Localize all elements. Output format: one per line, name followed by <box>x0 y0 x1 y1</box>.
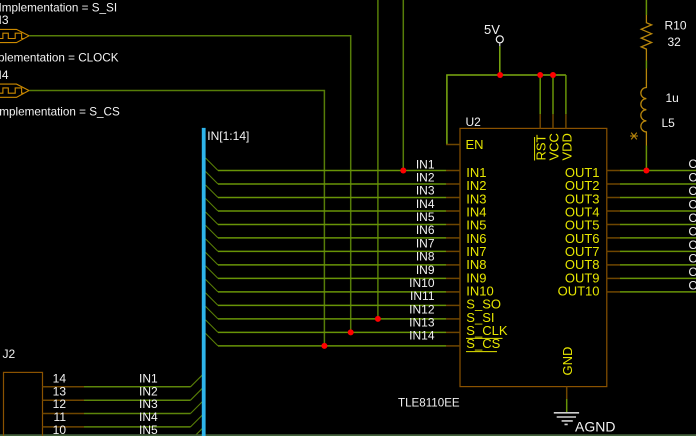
L5 polarity asterisk <box>630 133 638 140</box>
wire IN4 from bus to U2 <box>218 210 446 212</box>
wire from L5 down to OUT1 <box>645 146 647 171</box>
wire J2 pin 13 to bus (IN2) <box>84 399 191 401</box>
wire OUT7 to right edge <box>620 250 696 252</box>
pin IN3 <box>446 197 460 199</box>
svg-text:IN6: IN6 <box>416 223 435 237</box>
svg-text:R10: R10 <box>665 19 687 33</box>
wire to VDD pin <box>565 75 567 114</box>
wire to VCC pin <box>552 75 554 114</box>
svg-text:U2: U2 <box>466 115 482 129</box>
power symbol 5V <box>496 36 503 43</box>
J2 pin 14 <box>43 386 85 388</box>
svg-text:32: 32 <box>668 35 682 49</box>
wire from port I3 down to IN13 row <box>29 36 350 333</box>
pin OUT9 <box>607 277 620 279</box>
bus entry IN1 <box>206 158 219 171</box>
pin S_CLK <box>446 331 460 333</box>
svg-text:IN9: IN9 <box>416 263 435 277</box>
svg-text:12: 12 <box>53 397 67 411</box>
wire vertical drop to IN12 row <box>377 0 379 319</box>
svg-text:IN5: IN5 <box>139 423 158 436</box>
pin OUT10 <box>607 291 620 293</box>
svg-text:IN3: IN3 <box>416 184 435 198</box>
svg-text:L5: L5 <box>662 116 676 130</box>
connector J2 body <box>4 372 43 436</box>
wire J2 pin 14 to bus (IN1) <box>84 386 191 388</box>
J2 pin 12 <box>43 413 85 415</box>
pin OUT6 <box>607 237 620 239</box>
svg-text:OUT8: OUT8 <box>689 251 696 265</box>
bus entry IN14 <box>206 333 219 346</box>
svg-text:OUT9: OUT9 <box>689 265 696 279</box>
svg-text:14: 14 <box>53 372 67 386</box>
bus entry J2 IN4 <box>191 414 204 427</box>
bus entry IN5 <box>206 212 219 225</box>
wire IN2 from bus to U2 <box>218 183 446 185</box>
svg-text:IN14: IN14 <box>409 329 435 343</box>
wire OUT10 to right edge <box>620 291 696 293</box>
pin IN9 <box>446 277 460 279</box>
svg-text:IN12: IN12 <box>409 302 435 316</box>
wire 5V stem <box>499 46 501 75</box>
junction at RST rail <box>537 72 543 78</box>
wire IN8 from bus to U2 <box>218 264 446 266</box>
bus entry IN12 <box>206 306 219 319</box>
S_CS active-low underline <box>466 351 497 353</box>
wire OUT5 to right edge <box>620 224 696 226</box>
svg-text:IN[1:14]: IN[1:14] <box>207 129 249 143</box>
wire OUT6 to right edge <box>620 237 696 239</box>
svg-text:OUT5: OUT5 <box>689 211 696 225</box>
junction at OUT1 <box>643 168 649 174</box>
svg-text:TLE8110EE: TLE8110EE <box>398 397 460 410</box>
bus entry IN13 <box>206 320 219 333</box>
bus entry J2 IN1 <box>191 374 204 387</box>
wire GND pin to ground <box>566 399 568 412</box>
svg-text:5V: 5V <box>484 22 500 37</box>
bus IN[1:14] <box>202 128 206 436</box>
svg-text:IN1: IN1 <box>139 372 158 386</box>
svg-text:IN1: IN1 <box>416 157 435 171</box>
svg-text:I4: I4 <box>0 68 9 82</box>
wire IN11 from bus to U2 <box>218 304 446 306</box>
wire OUT8 to right edge <box>620 264 696 266</box>
svg-text:Implementation = CLOCK: Implementation = CLOCK <box>0 51 119 64</box>
pin IN10 <box>446 291 460 293</box>
op IC U2 TLE8110EE body <box>460 128 607 386</box>
svg-text:IN2: IN2 <box>416 171 435 185</box>
pin IN7 <box>446 250 460 252</box>
svg-text:IN5: IN5 <box>416 210 435 224</box>
wire 5V rail to RST/VCC/VDD and EN <box>447 75 566 145</box>
svg-text:OUT10: OUT10 <box>689 278 696 292</box>
svg-text:GND: GND <box>560 347 575 376</box>
wire IN5 from bus to U2 <box>218 224 446 226</box>
bus entry IN11 <box>206 293 219 306</box>
pin RST <box>539 114 541 128</box>
port I3 (pulse generator symbol) <box>0 29 29 42</box>
junction at IN13 <box>348 329 354 335</box>
J2 pin 11 <box>43 426 85 428</box>
pin IN1 <box>446 170 460 172</box>
wire OUT4 to right edge <box>620 210 696 212</box>
wire between R10 and L5 <box>645 61 647 69</box>
junction at IN1 <box>400 168 406 174</box>
svg-text:OUT10: OUT10 <box>558 284 600 299</box>
bus entry J2 IN5 <box>191 428 204 436</box>
svg-text:Implementation = S_SI: Implementation = S_SI <box>0 1 117 14</box>
wire to RST pin <box>539 75 541 114</box>
resistor R10 <box>641 15 651 61</box>
port I4 (pulse generator symbol) <box>0 84 29 97</box>
svg-text:OUT2: OUT2 <box>689 171 696 185</box>
svg-text:IN7: IN7 <box>416 236 435 250</box>
wire from port I4 down to IN14 row <box>29 91 324 346</box>
bus entry IN10 <box>206 279 219 292</box>
junction at IN14 <box>321 343 327 349</box>
wire J2 pin 11 to bus (IN4) <box>84 426 191 428</box>
wire J2 pin 12 to bus (IN3) <box>84 413 191 415</box>
pin IN6 <box>446 237 460 239</box>
bus entry J2 IN2 <box>191 388 204 401</box>
svg-text:IN13: IN13 <box>409 315 435 329</box>
wire vertical drop to IN1 row <box>402 0 404 171</box>
svg-text:OUT6: OUT6 <box>689 224 696 238</box>
bus entry IN3 <box>206 185 219 198</box>
junction at 5V rail <box>497 72 503 78</box>
svg-text:IN3: IN3 <box>139 397 158 411</box>
pin OUT4 <box>607 210 620 212</box>
wire OUT1 to right edge <box>620 170 696 172</box>
svg-text:OUT4: OUT4 <box>689 198 696 212</box>
wire IN12 from bus to U2 <box>218 318 446 320</box>
svg-text:VDD: VDD <box>559 133 574 160</box>
J2 pin 13 <box>43 399 85 401</box>
pin IN8 <box>446 264 460 266</box>
wire IN3 from bus to U2 <box>218 197 446 199</box>
svg-text:1u: 1u <box>666 91 679 105</box>
pin S_CS <box>446 345 460 347</box>
svg-text:J2: J2 <box>3 347 16 361</box>
wire IN13 from bus to U2 <box>218 331 446 333</box>
wire OUT2 to right edge <box>620 183 696 185</box>
pin OUT1 <box>607 170 620 172</box>
pin S_SI <box>446 318 460 320</box>
svg-text:OUT3: OUT3 <box>689 184 696 198</box>
svg-text:OUT1: OUT1 <box>689 157 696 171</box>
pin IN2 <box>446 183 460 185</box>
bus entry IN2 <box>206 172 219 185</box>
junction at IN12 <box>375 316 381 322</box>
bus entry IN9 <box>206 266 219 279</box>
bus entry IN6 <box>206 225 219 238</box>
wire IN10 from bus to U2 <box>218 291 446 293</box>
RST overline <box>534 137 536 161</box>
bus entry IN8 <box>206 252 219 265</box>
wire IN14 from bus to U2 <box>218 345 446 347</box>
wire IN6 from bus to U2 <box>218 237 446 239</box>
wire IN9 from bus to U2 <box>218 277 446 279</box>
svg-text:EN: EN <box>466 137 484 152</box>
S_CLK active-low underline <box>466 337 503 339</box>
wire across bottom edge <box>0 434 696 436</box>
pin S_SO <box>446 304 460 306</box>
pin OUT5 <box>607 224 620 226</box>
svg-text:10: 10 <box>53 423 67 436</box>
inductor L5 <box>641 69 647 146</box>
pin OUT3 <box>607 197 620 199</box>
svg-text:I3: I3 <box>0 13 9 27</box>
pin IN5 <box>446 224 460 226</box>
svg-text:IN8: IN8 <box>416 250 435 264</box>
wire OUT9 to right edge <box>620 277 696 279</box>
pin GND <box>566 387 568 399</box>
pin OUT2 <box>607 183 620 185</box>
svg-text:OUT7: OUT7 <box>689 238 696 252</box>
svg-text:Implementation = S_CS: Implementation = S_CS <box>0 105 120 118</box>
svg-text:IN4: IN4 <box>416 197 435 211</box>
svg-text:AGND: AGND <box>575 419 615 435</box>
junction at VCC rail <box>550 72 556 78</box>
wire OUT3 to right edge <box>620 197 696 199</box>
pin VCC <box>552 114 554 128</box>
pin OUT7 <box>607 250 620 252</box>
ground symbol AGND <box>554 413 579 425</box>
pin IN4 <box>446 210 460 212</box>
svg-text:IN11: IN11 <box>410 289 435 303</box>
bus entry IN7 <box>206 239 219 252</box>
wire IN1 from bus to U2 <box>218 170 446 172</box>
wire top of R10 branch <box>645 0 647 15</box>
bus entry J2 IN3 <box>191 401 204 414</box>
svg-text:IN10: IN10 <box>409 276 435 290</box>
bus entry IN4 <box>206 199 219 212</box>
wire IN7 from bus to U2 <box>218 250 446 252</box>
pin OUT8 <box>607 264 620 266</box>
pin VDD <box>565 114 567 128</box>
pin EN <box>446 144 460 146</box>
